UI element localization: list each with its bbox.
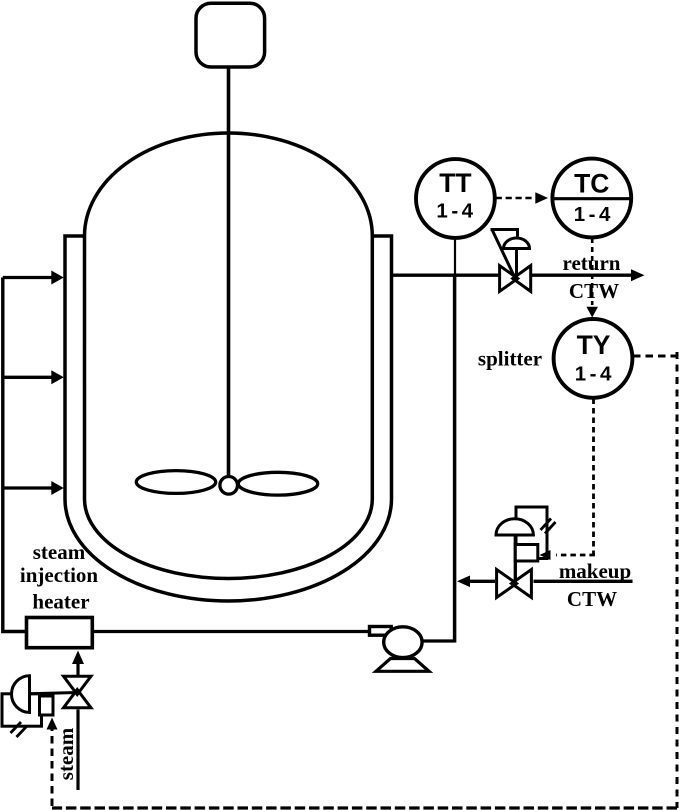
svg-text:return: return (563, 251, 621, 275)
svg-text:steam: steam (33, 540, 86, 564)
svg-text:CTW: CTW (567, 587, 617, 611)
svg-text:1-4: 1-4 (575, 363, 615, 386)
svg-text:1-4: 1-4 (436, 200, 476, 223)
svg-text:1-4: 1-4 (574, 203, 614, 226)
svg-text:heater: heater (32, 590, 89, 614)
svg-text:splitter: splitter (478, 347, 542, 371)
svg-text:steam: steam (54, 727, 78, 780)
svg-text:makeup: makeup (559, 559, 631, 583)
svg-text:TT: TT (439, 168, 471, 198)
svg-text:injection: injection (20, 563, 98, 587)
svg-text:CTW: CTW (569, 279, 619, 303)
svg-text:TC: TC (574, 168, 609, 198)
svg-text:TY: TY (577, 330, 611, 360)
